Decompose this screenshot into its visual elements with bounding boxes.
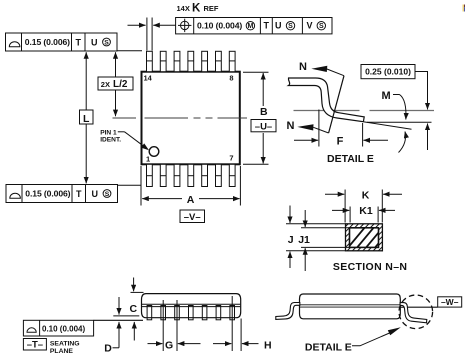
svg-text:S: S [319,23,324,30]
svg-text:–T–: –T– [27,340,43,351]
svg-text:0.25 (0.010): 0.25 (0.010) [365,67,411,77]
svg-text:7: 7 [229,154,233,163]
svg-text:U: U [275,20,282,30]
svg-text:1: 1 [146,155,150,164]
svg-text:–V–: –V– [184,212,201,223]
svg-text:U: U [91,37,98,47]
svg-text:K: K [192,3,201,15]
svg-text:M: M [382,90,391,102]
svg-text:IDENT.: IDENT. [100,137,121,144]
svg-text:0.10 (0.004): 0.10 (0.004) [197,20,242,30]
svg-text:C: C [130,303,138,315]
svg-text:N: N [287,120,295,132]
svg-text:H: H [264,340,272,352]
svg-text:J: J [288,234,294,246]
svg-text:14: 14 [144,74,153,83]
svg-text:0.15 (0.006): 0.15 (0.006) [25,189,70,199]
svg-text:DETAIL E: DETAIL E [305,341,352,353]
svg-text:2X: 2X [101,80,110,89]
svg-text:L: L [83,113,90,125]
svg-text:8: 8 [229,74,233,83]
svg-text:N: N [299,61,307,73]
svg-text:0.10 (0.004): 0.10 (0.004) [42,325,85,334]
svg-text:REF: REF [204,4,219,13]
svg-text:–W–: –W– [441,297,459,307]
svg-text:K: K [362,189,370,201]
svg-text:J1: J1 [298,234,310,246]
svg-text:14X: 14X [177,4,190,13]
svg-text:S: S [288,23,293,30]
svg-text:T: T [264,20,270,30]
svg-text:0.15 (0.006): 0.15 (0.006) [25,37,70,47]
svg-text:U: U [92,189,99,199]
svg-text:F: F [337,136,344,148]
svg-text:T: T [76,37,82,47]
svg-text:S: S [104,40,109,47]
svg-text:B: B [260,106,268,118]
svg-text:PLANE: PLANE [50,348,74,355]
svg-text:–U–: –U– [255,121,272,132]
svg-text:D: D [104,343,112,355]
svg-text:PIN 1: PIN 1 [100,130,117,137]
svg-text:G: G [165,339,173,351]
svg-text:DETAIL E: DETAIL E [327,153,374,165]
svg-text:A: A [187,194,195,206]
svg-text:M: M [247,23,253,30]
svg-text:K1: K1 [359,205,373,217]
svg-text:T: T [76,189,82,199]
svg-text:SECTION N–N: SECTION N–N [333,261,407,273]
svg-text:SEATING: SEATING [50,340,80,347]
svg-text:S: S [105,191,110,198]
svg-text:L/2: L/2 [113,79,128,90]
svg-text:V: V [307,21,313,31]
